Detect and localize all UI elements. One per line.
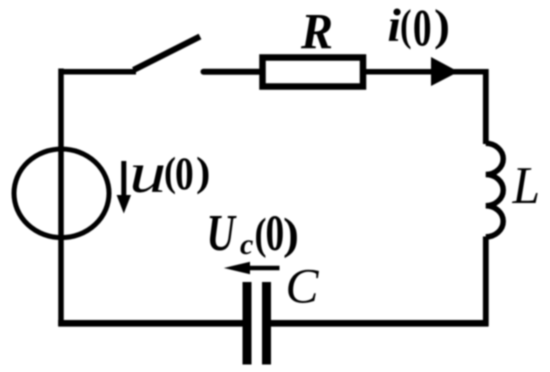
inductor L1 (486, 143, 504, 237)
svg-text:0: 0 (175, 148, 194, 200)
svg-text:): ) (196, 149, 210, 195)
capacitor C1 right plate (262, 282, 271, 365)
wire resistor to top-right corner (366, 69, 488, 75)
wire right vertical lower (483, 237, 489, 327)
svg-text:(: ( (400, 1, 412, 50)
Uc(0) polarity arrowhead (224, 262, 250, 275)
svg-text:(: ( (164, 149, 176, 195)
switch S1 blade (134, 37, 201, 71)
svg-text:): ) (434, 1, 450, 50)
u(0) polarity arrow shaft (121, 161, 126, 198)
svg-text:u: u (129, 142, 166, 205)
wire right vertical upper (483, 69, 489, 144)
Uc(0) polarity arrow shaft (244, 266, 280, 271)
current direction arrowhead (431, 57, 459, 86)
svg-text:0: 0 (413, 0, 432, 57)
resistor R1 body (263, 58, 364, 87)
voltage source U1 (14, 149, 109, 238)
svg-text:c: c (240, 228, 253, 261)
wire left vertical (through source) (58, 69, 64, 327)
capacitor C1 left plate (243, 282, 252, 365)
wire top-left horizontal (59, 69, 137, 75)
svg-text:U: U (207, 204, 237, 261)
u(0) polarity arrowhead (117, 195, 131, 214)
svg-text:i: i (388, 0, 401, 51)
svg-text:L: L (512, 157, 540, 216)
svg-text:0: 0 (266, 205, 285, 262)
svg-text:): ) (283, 209, 299, 258)
wire bottom right (267, 320, 489, 327)
wire bottom left (58, 320, 243, 327)
svg-text:C: C (286, 259, 320, 314)
wire switch right terminal to resistor (204, 69, 262, 75)
svg-text:R: R (300, 3, 333, 60)
